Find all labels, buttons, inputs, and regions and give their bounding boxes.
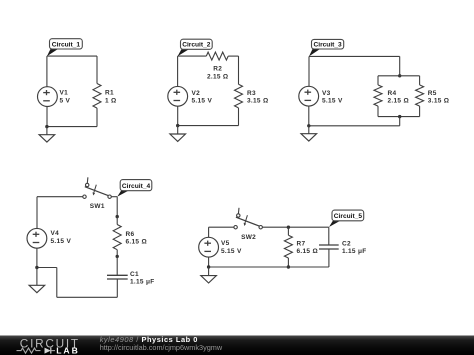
wire V2 to bottom — [177, 106, 179, 125]
wire V3 to bottom — [308, 106, 310, 126]
wire right rail upper circuit 1 — [96, 56, 98, 83]
label C1 1.15 uF — [130, 271, 155, 286]
wire right branch upper circuit 3 — [419, 76, 421, 85]
node junction circuit 4 — [35, 266, 38, 269]
label R2 2.15 ohm — [207, 66, 228, 81]
svg-text:http://circuitlab.com/cjmp6wmk: http://circuitlab.com/cjmp6wmk3ygmw — [100, 343, 223, 352]
wire left rail circuit 1 — [46, 56, 48, 87]
ground circuit 4 — [29, 268, 45, 293]
voltage source V3 — [299, 86, 319, 106]
resistor R6 — [113, 225, 121, 250]
node junction above R7 — [287, 226, 290, 229]
svg-text:Circuit_5: Circuit_5 — [334, 213, 363, 220]
label R7 6.15 ohm — [297, 240, 318, 255]
label R3 3.15 ohm — [247, 90, 268, 105]
svg-text:R4: R4 — [388, 90, 397, 97]
svg-text:5 V: 5 V — [60, 97, 71, 104]
svg-text:1 Ω: 1 Ω — [105, 97, 117, 104]
svg-text:V2: V2 — [192, 90, 201, 97]
wire top left circuit 4 — [37, 196, 83, 198]
label V4 5.15 V — [51, 230, 72, 245]
label V2 5.15 V — [192, 90, 213, 105]
resistor R3 — [235, 84, 243, 108]
wire right rail upper circuit 4 — [116, 197, 118, 217]
wire bottom circuit 2 — [178, 125, 239, 127]
node junction circuit 2 — [176, 124, 179, 127]
switch SW2 — [234, 208, 262, 229]
voltage source V4 — [27, 228, 47, 248]
label balloon Circuit_3 — [309, 39, 344, 56]
svg-text:6.15 Ω: 6.15 Ω — [297, 248, 318, 255]
logo LAB text — [56, 346, 80, 355]
wire bottom circuit 3 — [309, 125, 400, 127]
svg-text:3.15 Ω: 3.15 Ω — [428, 98, 449, 105]
label R5 3.15 ohm — [428, 90, 449, 105]
svg-text:R5: R5 — [428, 90, 437, 97]
svg-text:R6: R6 — [126, 231, 135, 238]
node junction below R7 — [287, 265, 290, 268]
wire junction to riser circuit 4 — [37, 267, 57, 269]
wire bottom circuit 1 — [47, 126, 97, 128]
wire switch to corner circuit 5 — [262, 226, 328, 228]
wire top circuit 1 — [47, 55, 97, 57]
wire right rail lower circuit 1 — [96, 108, 98, 127]
svg-text:5.15 V: 5.15 V — [51, 238, 72, 245]
label V5 5.15 V — [221, 240, 242, 255]
svg-text:Circuit_3: Circuit_3 — [313, 41, 342, 48]
wire R7 top lead — [287, 227, 289, 235]
svg-text:Circuit_1: Circuit_1 — [52, 41, 81, 48]
logo resistor glyph — [17, 348, 41, 353]
wire C2 to bottom — [328, 249, 330, 267]
wire right rail upper circuit 2 — [238, 56, 240, 84]
wire down to parallel bus circuit 3 — [399, 56, 401, 75]
node junction circuit 1 — [45, 125, 48, 128]
node junction top parallel circuit 3 — [398, 74, 401, 77]
ground circuit 1 — [39, 127, 55, 143]
node junction circuit 5 — [207, 265, 210, 268]
svg-text:6.15 Ω: 6.15 Ω — [126, 239, 147, 246]
svg-text:V3: V3 — [322, 90, 331, 97]
voltage source V2 — [168, 86, 188, 106]
label SW1 — [90, 203, 105, 210]
wire bottom left riser circuit 4 — [56, 268, 58, 298]
wire bottom circuit 5 — [209, 266, 329, 268]
footer title line — [100, 335, 198, 344]
wire bottom bus circuit 3 — [378, 116, 420, 118]
wire C1 to bottom — [116, 279, 118, 297]
svg-text:Circuit_2: Circuit_2 — [182, 42, 211, 49]
node junction circuit 3 — [307, 124, 310, 127]
node junction bottom parallel circuit 3 — [398, 115, 401, 118]
svg-text:3.15 Ω: 3.15 Ω — [247, 98, 268, 105]
wire right branch lower circuit 3 — [419, 106, 421, 117]
label V1 5 V — [60, 90, 71, 105]
wire top left circuit 2 — [178, 55, 207, 57]
footer bar — [0, 336, 474, 355]
wire left rail circuit 3 — [308, 56, 310, 86]
node junction above R6 — [116, 215, 119, 218]
svg-text:C1: C1 — [130, 271, 139, 278]
label R4 2.15 ohm — [388, 90, 409, 105]
svg-text:SW1: SW1 — [90, 203, 105, 210]
wire V4 to junction — [36, 248, 38, 268]
wire left branch lower circuit 3 — [377, 106, 379, 117]
svg-text:SW2: SW2 — [241, 234, 256, 241]
label balloon Circuit_4 — [117, 180, 152, 197]
wire V1 to bottom — [46, 107, 48, 127]
label balloon Circuit_5 — [329, 210, 364, 227]
node junction below R6 — [116, 255, 119, 258]
voltage source V1 — [38, 87, 58, 107]
wire left branch upper circuit 3 — [377, 76, 379, 85]
resistor R1 — [93, 84, 101, 109]
svg-text:2.15 Ω: 2.15 Ω — [388, 98, 409, 105]
svg-text:R7: R7 — [297, 240, 306, 247]
wire top bus circuit 3 — [378, 75, 420, 77]
wire top right circuit 2 — [228, 55, 238, 57]
wire right rail upper circuit 5 — [328, 227, 330, 245]
wire right rail lower circuit 2 — [238, 108, 240, 126]
label V3 5.15 V — [322, 90, 343, 105]
capacitor C1 — [107, 275, 128, 279]
wire junction to C1 — [116, 256, 118, 275]
wire R7 bottom lead — [287, 258, 289, 267]
svg-text:1.15 μF: 1.15 μF — [342, 248, 367, 255]
label SW2 — [241, 234, 256, 241]
label balloon Circuit_2 — [178, 39, 213, 56]
svg-text:5.15 V: 5.15 V — [322, 98, 343, 105]
svg-text:V5: V5 — [221, 240, 230, 247]
svg-text:2.15 Ω: 2.15 Ω — [207, 73, 228, 80]
label R1 1 ohm — [105, 90, 117, 105]
svg-text:5.15 V: 5.15 V — [192, 98, 213, 105]
label balloon Circuit_1 — [47, 39, 82, 57]
svg-text:V1: V1 — [60, 90, 69, 97]
wire top left circuit 5 — [209, 226, 234, 228]
logo diode glyph — [45, 348, 56, 354]
label R6 6.15 ohm — [126, 231, 147, 246]
resistor R2 — [206, 52, 228, 60]
voltage source V5 — [199, 237, 219, 257]
resistor R4 — [374, 85, 382, 106]
wire top circuit 3 — [309, 55, 400, 57]
ground circuit 2 — [170, 126, 186, 142]
svg-text:Circuit_4: Circuit_4 — [122, 183, 151, 190]
capacitor C2 — [319, 245, 339, 249]
wire junction to R6 — [116, 217, 118, 225]
svg-text:C2: C2 — [342, 240, 351, 247]
ground circuit 3 — [301, 126, 317, 141]
wire left rail circuit 4 — [36, 197, 38, 229]
svg-text:1.15 μF: 1.15 μF — [130, 279, 155, 286]
wire bottom circuit 4 — [57, 296, 118, 298]
wire V5 to junction — [208, 257, 210, 267]
wire left rail circuit 5 — [208, 227, 210, 237]
svg-text:LAB: LAB — [56, 346, 80, 355]
ground circuit 5 — [201, 267, 217, 283]
footer url line — [100, 343, 223, 352]
svg-text:R1: R1 — [105, 90, 114, 97]
logo CIRCUIT text — [20, 336, 80, 350]
wire R6 to junction — [116, 250, 118, 257]
wire switch to corner circuit 4 — [111, 196, 117, 198]
wire left rail circuit 2 — [177, 56, 179, 86]
svg-text:R2: R2 — [213, 66, 222, 73]
label C2 1.15 uF — [342, 240, 367, 255]
svg-text:V4: V4 — [51, 230, 60, 237]
switch SW1 — [83, 177, 112, 198]
wire bus to bottom circuit 3 — [399, 117, 401, 126]
resistor R5 — [416, 85, 424, 106]
svg-text:5.15 V: 5.15 V — [221, 248, 242, 255]
resistor R7 — [284, 235, 292, 258]
svg-text:R3: R3 — [247, 90, 256, 97]
